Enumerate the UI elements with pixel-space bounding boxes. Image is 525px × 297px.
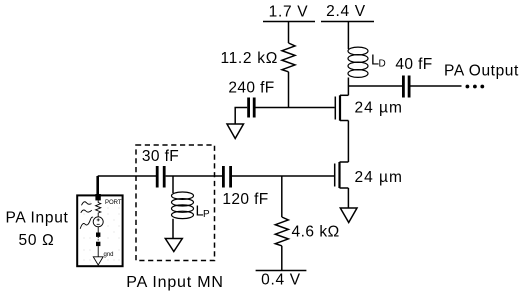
svg-text:24 µm: 24 µm <box>355 169 403 186</box>
svg-text:PA Input MN: PA Input MN <box>126 274 223 291</box>
wire C30 to C120 <box>166 175 222 177</box>
capacitor C240 240 fF <box>249 98 255 118</box>
svg-text:120 fF: 120 fF <box>222 191 268 208</box>
port wave mark 3 <box>80 217 93 229</box>
wire LP to ground <box>172 219 174 239</box>
port source marks <box>97 218 100 224</box>
wire LP stub <box>172 176 174 193</box>
svg-text:PA Output: PA Output <box>444 63 519 80</box>
svg-text:P: P <box>203 209 210 220</box>
svg-text:PA Input: PA Input <box>5 210 68 227</box>
wire rail2.4 to LD <box>347 22 349 50</box>
wire port stub <box>96 176 99 196</box>
port box PORT1 <box>77 195 122 266</box>
capacitor C120 120 fF <box>223 166 230 188</box>
svg-text:1.7 V: 1.7 V <box>269 4 309 21</box>
wire M1 source to M2 drain <box>347 121 349 163</box>
supply rail 1.7 V <box>263 21 315 23</box>
transistor M1 24um cascode <box>335 95 348 120</box>
port terminal square <box>95 194 100 200</box>
inductor LD <box>348 47 368 77</box>
capacitor C40 40 fF <box>403 76 409 98</box>
port gnd arrow <box>93 257 103 265</box>
resistor R1 11.2 kOhm <box>282 43 295 72</box>
svg-text:4.6 kΩ: 4.6 kΩ <box>292 224 340 241</box>
svg-text:gnd: gnd <box>104 252 114 258</box>
port square pin2 <box>96 242 100 246</box>
svg-text:11.2 kΩ: 11.2 kΩ <box>220 50 278 67</box>
port dot grid <box>84 202 120 261</box>
svg-text:30 fF: 30 fF <box>142 148 179 165</box>
resistor R2 4.6 kOhm <box>275 217 288 246</box>
ground G3 <box>165 239 182 252</box>
port wire to gnd <box>97 246 99 257</box>
inductor LP <box>172 192 194 219</box>
wire R1 to gate node <box>288 72 290 108</box>
wire C240 left to ground <box>235 108 247 125</box>
wire C40 to output <box>411 85 462 87</box>
svg-text:0.4 V: 0.4 V <box>261 272 301 289</box>
wire C120 to M2 gate <box>232 175 334 177</box>
capacitor C30 30 fF <box>157 166 164 188</box>
svg-text:2.4 V: 2.4 V <box>326 3 366 20</box>
supply rail 2.4 V <box>321 21 374 23</box>
port wire below source <box>97 227 99 233</box>
dashed box PA Input MN <box>136 145 215 261</box>
port internal resistor <box>96 200 101 216</box>
ground G2 <box>227 124 244 139</box>
wire LD to drain node <box>347 78 349 96</box>
svg-text:24 µm: 24 µm <box>355 100 403 117</box>
wire M1 gate <box>256 107 335 109</box>
wire drain node to C40 <box>348 85 402 87</box>
port wire between squares <box>97 237 99 242</box>
node dots ellipsis <box>466 85 485 89</box>
port wave mark 1 <box>82 202 92 206</box>
svg-text:40 fF: 40 fF <box>395 56 432 73</box>
port source circle <box>93 217 103 227</box>
port square pin1 <box>96 233 100 237</box>
svg-text:50 Ω: 50 Ω <box>19 232 55 249</box>
wire R2 stub <box>281 176 283 217</box>
wire R2 to rail <box>281 246 283 271</box>
port wave mark 2 <box>81 210 92 213</box>
svg-text:240 fF: 240 fF <box>228 80 274 97</box>
ground G1 <box>340 208 357 223</box>
svg-text:PORT: PORT <box>105 200 122 206</box>
wire input horizontal main <box>98 175 156 177</box>
wire M2 source down <box>347 188 349 208</box>
wire rail1.7 to R1 <box>288 22 290 44</box>
transistor M2 24um <box>335 162 349 188</box>
svg-text:D: D <box>379 59 386 70</box>
bias rail 0.4 V <box>256 270 307 272</box>
